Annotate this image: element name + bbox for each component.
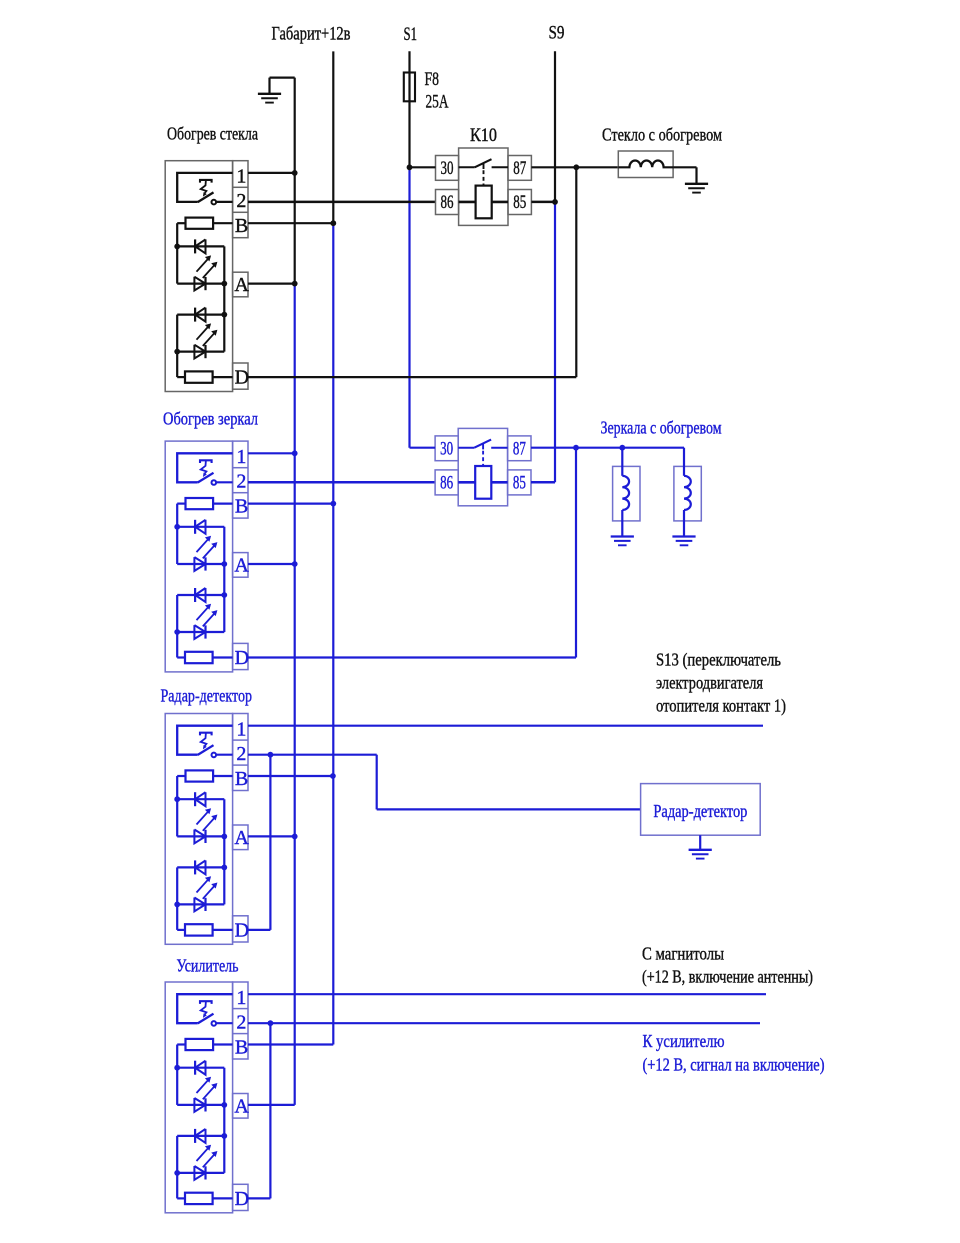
svg-text:Зеркала с обогревом: Зеркала с обогревом: [601, 418, 722, 438]
svg-text:D: D: [235, 1188, 249, 1210]
svg-text:25A: 25A: [426, 92, 449, 113]
svg-text:30: 30: [440, 439, 453, 459]
svg-text:B: B: [235, 1036, 248, 1058]
svg-text:С магнитолы: С магнитолы: [642, 944, 724, 964]
svg-text:К10: К10: [470, 125, 497, 146]
svg-text:30: 30: [441, 159, 454, 179]
svg-text:A: A: [234, 827, 249, 849]
svg-text:2: 2: [236, 190, 246, 212]
svg-text:(+12 В, включение антенны): (+12 В, включение антенны): [642, 967, 813, 987]
svg-text:S13 (переключатель: S13 (переключатель: [656, 650, 781, 670]
svg-text:B: B: [235, 215, 248, 237]
svg-text:1: 1: [236, 718, 246, 740]
svg-text:Стекло с обогревом: Стекло с обогревом: [602, 125, 722, 145]
svg-text:A: A: [234, 274, 249, 296]
svg-text:Габарит+12в: Габарит+12в: [272, 24, 351, 45]
svg-text:85: 85: [513, 474, 526, 494]
svg-text:D: D: [235, 647, 249, 669]
svg-text:Радар-детектор: Радар-детектор: [653, 801, 747, 821]
svg-text:Усилитель: Усилитель: [177, 956, 239, 976]
svg-text:2: 2: [236, 1011, 246, 1033]
svg-text:электродвигателя: электродвигателя: [656, 673, 763, 693]
svg-text:87: 87: [513, 159, 526, 179]
svg-text:86: 86: [441, 193, 454, 213]
svg-text:D: D: [235, 367, 249, 389]
svg-text:S1: S1: [404, 24, 418, 45]
svg-text:2: 2: [236, 470, 246, 492]
svg-text:85: 85: [513, 193, 526, 213]
svg-text:Обогрев стекла: Обогрев стекла: [167, 124, 258, 144]
svg-text:1: 1: [236, 166, 246, 188]
svg-text:1: 1: [236, 987, 246, 1009]
svg-text:B: B: [235, 495, 248, 517]
svg-text:S9: S9: [549, 23, 565, 44]
svg-text:(+12 В, сигнал на включение): (+12 В, сигнал на включение): [643, 1055, 825, 1075]
svg-text:A: A: [234, 1096, 249, 1118]
svg-text:Радар-детектор: Радар-детектор: [161, 685, 253, 705]
svg-text:B: B: [235, 768, 248, 790]
svg-text:отопителя контакт 1): отопителя контакт 1): [656, 696, 786, 716]
svg-text:87: 87: [513, 439, 526, 459]
svg-text:К усилителю: К усилителю: [643, 1031, 725, 1051]
svg-text:A: A: [234, 555, 249, 577]
svg-text:86: 86: [440, 474, 453, 494]
svg-text:F8: F8: [425, 69, 440, 90]
svg-text:D: D: [235, 919, 249, 941]
svg-text:2: 2: [236, 743, 246, 765]
svg-text:1: 1: [236, 446, 246, 468]
svg-text:Обогрев зеркал: Обогрев зеркал: [163, 409, 258, 429]
